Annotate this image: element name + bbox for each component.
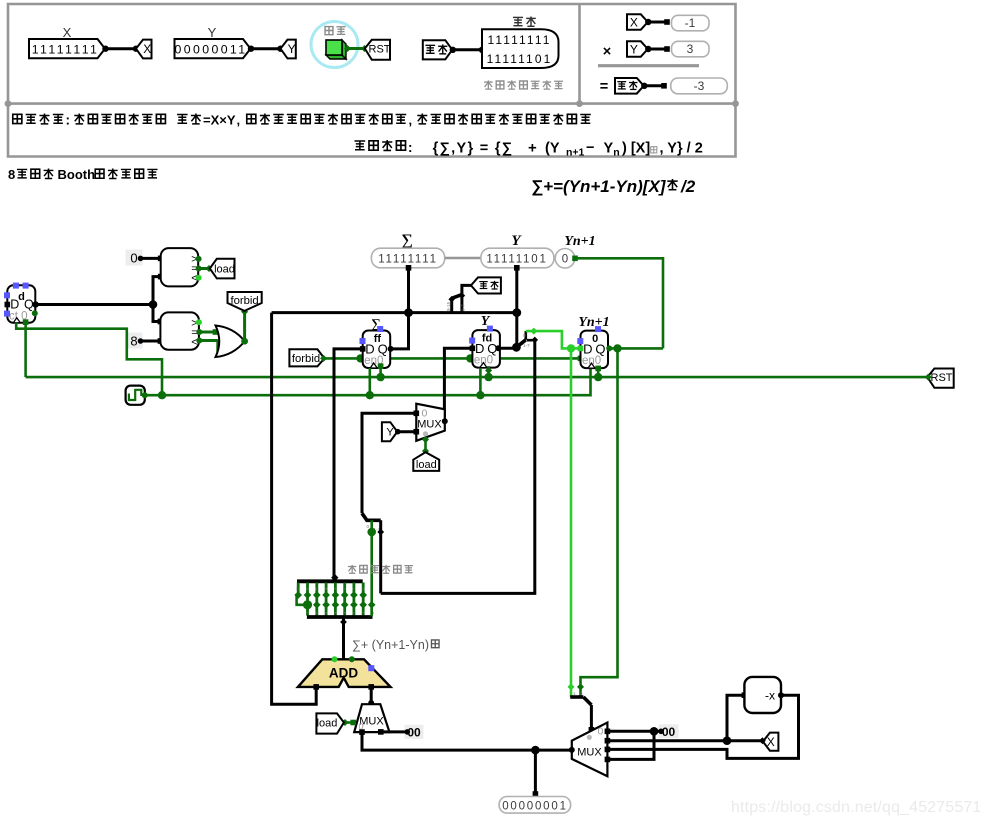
svg-text:11111111: 11111111	[488, 33, 552, 47]
text 功能说明 line	[13, 114, 64, 125]
wire mux U8 input from product mux	[362, 732, 571, 750]
wire counter Q to comparators	[35, 303, 153, 306]
wire to comparator U3 input	[153, 305, 160, 322]
svg-text:1-7: 1-7	[523, 343, 530, 348]
wire Yn+1 dark vertical (to output splitter)	[581, 348, 618, 697]
svg-text:Y: Y	[386, 427, 394, 439]
svg-text:−: −	[586, 140, 594, 156]
tunnel 乘积 (product, top)	[423, 40, 453, 59]
wire button to tunnel RST	[346, 47, 365, 50]
svg-text:ADD: ADD	[329, 666, 358, 681]
wire en net (forbid)	[324, 357, 580, 360]
svg-text:Yn+1: Yn+1	[578, 315, 609, 330]
wire ∑ probe to bus	[407, 268, 410, 313]
tunnel load (from comparator)	[210, 259, 235, 279]
wire U2 = output to load tunnel	[198, 267, 210, 270]
svg-text:11111111: 11111111	[378, 254, 438, 266]
svg-text:X: X	[143, 42, 151, 56]
shifter sign-extension elbow	[297, 595, 308, 605]
svg-text:0: 0	[367, 524, 370, 529]
svg-text:n: n	[613, 147, 619, 159]
svg-text:=: =	[600, 79, 608, 95]
svg-text:Y: Y	[604, 141, 614, 157]
wire tunnel to output pin 乘积	[452, 48, 482, 51]
label 复位 (reset)	[325, 27, 346, 35]
wire counter en pin down to RST net	[24, 323, 27, 377]
selection handles on counter	[13, 283, 19, 289]
svg-text:×: ×	[603, 44, 611, 60]
tunnel X	[136, 40, 152, 59]
tunnel 乘积 (to output pin)	[471, 277, 501, 293]
wire bits 1-7 down to y593 bus	[379, 520, 382, 593]
svg-text:-3: -3	[694, 79, 705, 93]
svg-text:load: load	[214, 264, 235, 276]
wire Yn+1 Q to probe net	[609, 347, 663, 350]
svg-text:/2: /2	[680, 177, 696, 196]
wire RST net (long horizontal)	[26, 376, 928, 379]
wire grey link between probes	[445, 257, 481, 260]
register fd (Y)	[472, 330, 500, 368]
tunnel RST	[365, 40, 390, 60]
probe ∑ (11111111)	[371, 248, 444, 268]
svg-text:forbid: forbid	[230, 295, 258, 307]
button 复位 (green push button)	[326, 55, 346, 59]
constant 8	[126, 333, 143, 349]
splitter shifter bottom bar	[307, 615, 373, 619]
wire constant 8 to comparator U3	[140, 340, 160, 343]
register ff (∑)	[363, 331, 391, 369]
register Yn+1	[581, 331, 609, 369]
tunnel 乘积 (formula panel)	[615, 78, 644, 94]
label 算术右移一位	[348, 565, 413, 574]
mux U8 (addend select)	[354, 704, 389, 732]
svg-text:MUX: MUX	[577, 747, 602, 759]
wire constant 0 to comparator U2	[140, 257, 161, 260]
svg-text:0: 0	[523, 333, 526, 338]
bus ∑ horizontal (top)	[272, 311, 517, 314]
node counter-Q junction	[149, 300, 158, 309]
wire mux U6 input-0 from splitter	[362, 413, 416, 513]
wire shifter output to ADD	[342, 619, 345, 660]
comparator U2 (count vs 0)	[161, 248, 199, 286]
svg-text:-1: -1	[685, 16, 696, 30]
node en at fd	[466, 354, 474, 362]
svg-text:0: 0	[598, 726, 604, 738]
label 乘积 above output pin	[513, 16, 536, 26]
label 输入输出引脚区	[484, 80, 563, 89]
svg-text:8-15: 8-15	[446, 301, 451, 311]
node bus junction at Y	[512, 308, 521, 317]
splitter 乘积 combiner	[462, 285, 471, 312]
wire Yn+1 reset stub	[597, 369, 600, 378]
probe 00000001	[499, 797, 570, 814]
mux U9 (product source select)	[572, 723, 608, 777]
constant 00 (mux U9)	[659, 724, 679, 738]
wire splitter to mux U9 select	[590, 705, 593, 730]
node bus junction at ∑	[404, 308, 413, 317]
svg-text:(Y: (Y	[545, 141, 560, 157]
constant 0	[126, 250, 143, 266]
svg-text:load: load	[416, 459, 437, 471]
wire pin Y to tunnel Y	[251, 47, 281, 50]
svg-text:8: 8	[8, 167, 15, 182]
node clock junction at counter branch	[158, 391, 166, 399]
wire mux U9 input0 from 00	[607, 730, 661, 733]
svg-text:{∑,Y} = {∑: {∑,Y} = {∑	[433, 141, 514, 157]
svg-text:Yn+1: Yn+1	[564, 234, 595, 249]
svg-text:0: 0	[422, 408, 428, 420]
svg-text:+: +	[528, 140, 537, 157]
tunnel X (product path)	[763, 733, 779, 751]
wire pin X to tunnel X	[105, 47, 136, 50]
counter U1 (d)	[7, 285, 35, 323]
svg-text:3: 3	[687, 42, 694, 56]
node en at ff	[356, 354, 364, 362]
svg-text:MUX: MUX	[417, 419, 442, 431]
svg-text:00000001: 00000001	[502, 801, 568, 813]
wire big ∑ bus loop (left side)	[272, 313, 317, 705]
svg-text:∑+=(Yn+1-Yn)[X]: ∑+=(Yn+1-Yn)[X]	[531, 177, 667, 196]
splitter select bits (Yn+1,Yn)	[570, 695, 583, 699]
wire Y[1-7] bus down and around	[381, 339, 535, 593]
svg-text:D: D	[10, 298, 19, 312]
svg-text:00: 00	[662, 725, 676, 739]
svg-text:X: X	[63, 25, 72, 40]
wire Yn+1 D input (bright)	[571, 347, 581, 350]
probe 3	[672, 41, 710, 57]
mux U6 (Y register feed)	[416, 404, 445, 441]
tunnel Y (mux input 1)	[382, 422, 397, 441]
svg-text:=X×Y: =X×Y	[203, 113, 236, 128]
wire X to probe -1	[648, 21, 667, 24]
node Yn+1 Q junction	[613, 344, 621, 352]
svg-text:<: <	[191, 336, 197, 348]
wire ADD to mux U8	[370, 687, 373, 704]
node X junction	[723, 736, 732, 745]
tunnel RST (right end of reset net)	[927, 369, 953, 388]
clock source U5	[126, 386, 145, 405]
wire fd reset stub	[487, 366, 490, 377]
node probe tap junction	[531, 746, 540, 755]
probe Yn+1 bit (0)	[555, 248, 575, 268]
probe -3	[671, 78, 728, 94]
svg-text:,: ,	[237, 113, 241, 128]
OR gate U4	[216, 326, 245, 358]
probe -1	[672, 15, 710, 30]
svg-text:Y: Y	[208, 25, 217, 40]
wire Y to probe 3	[648, 48, 667, 51]
splitter Y bits	[516, 340, 525, 348]
svg-text:0: 0	[562, 254, 568, 266]
svg-text:) [X]: ) [X]	[622, 141, 650, 157]
svg-text::: :	[66, 113, 71, 128]
svg-text:-x: -x	[765, 689, 775, 703]
svg-text:RST: RST	[369, 44, 391, 56]
probe Y (11111101)	[481, 248, 554, 268]
shifter fan wires (8 bits, shifted)	[297, 583, 300, 596]
svg-text:∑: ∑	[401, 232, 412, 249]
wire lowbit-0 green down to shifter	[370, 520, 373, 616]
svg-text:forbid: forbid	[292, 353, 320, 365]
svg-text:https://blog.csdn.net/qq_45275: https://blog.csdn.net/qq_45275571	[731, 799, 981, 816]
wire mux U8 input from constant 00	[381, 730, 408, 733]
wire ff D input from shifter	[334, 349, 363, 581]
tunnel Y	[281, 40, 296, 59]
svg-text:X: X	[767, 735, 775, 749]
tunnel Y (formula panel)	[627, 41, 648, 56]
wire shifter extra bit-0 feed end	[370, 605, 373, 617]
svg-text:X: X	[630, 15, 638, 29]
svg-text:0: 0	[130, 251, 137, 266]
wire probe tap down	[534, 750, 537, 794]
wire fd Q to splitter	[498, 347, 517, 350]
svg-text:, Y} / 2: , Y} / 2	[660, 141, 703, 157]
wire fd clock stub	[479, 368, 482, 395]
wire tunnel Y to mux U6	[397, 430, 416, 433]
node Yn+1 D junction	[567, 344, 575, 352]
wire clock net (horizontal to Yn+1 register)	[145, 368, 591, 395]
svg-text:11111101: 11111101	[486, 254, 547, 266]
tunnel forbid (to en net)	[289, 349, 324, 366]
wire U3 < output to OR gate	[199, 341, 223, 351]
wire OR output to forbid tunnel	[243, 311, 246, 341]
wire mux U6 select to load	[424, 438, 427, 453]
wire Y probe down to fd Q net	[515, 268, 518, 349]
wire probe Yn+1 to register Q net	[576, 258, 663, 348]
tunnel load (up-pointing, mux U6 select)	[413, 452, 439, 471]
wire fd D input from MUX U6	[444, 348, 472, 421]
comparator U3 (count vs 8)	[160, 312, 199, 349]
wire 乘积 to probe -3	[644, 84, 664, 87]
wire ff Q to bus	[390, 313, 408, 349]
wire mux U9 input1 from X	[607, 739, 763, 742]
svg-text:RST: RST	[931, 372, 953, 384]
svg-text:n+1: n+1	[566, 147, 585, 159]
wire U3 = output to OR gate	[199, 331, 216, 334]
adder U7 (ADD)	[298, 659, 391, 687]
wire to comparator U2 input	[153, 277, 161, 305]
constant 00 (mux U8)	[405, 725, 424, 739]
wire X to negator input	[727, 695, 744, 741]
tunnel X (formula panel)	[627, 14, 648, 29]
svg-text:load: load	[317, 718, 338, 730]
tunnel forbid (down-pointing)	[228, 292, 262, 311]
node 00 junction	[650, 727, 659, 736]
svg-text:00000011: 00000011	[175, 43, 248, 57]
svg-text:11111101: 11111101	[487, 52, 553, 66]
svg-text:Booth: Booth	[58, 167, 96, 182]
wire negator output to mux U9 input2	[607, 695, 798, 758]
wire counter ct output to clock net	[16, 323, 162, 395]
svg-text:Y: Y	[288, 42, 296, 56]
tunnel load (mux U8 select)	[316, 713, 344, 733]
svg-text:0-7: 0-7	[461, 304, 466, 311]
output pin 乘积 (16-bit, two rows)	[482, 29, 559, 68]
negator U10 (-x)	[744, 677, 781, 713]
wire Yn bright vertical (to output splitter)	[570, 348, 573, 697]
splitter lowbit (mux U6 feed)	[362, 513, 381, 520]
splitter shifter top bar	[297, 579, 363, 583]
fraction line (formula panel)	[598, 64, 699, 67]
svg-text:11111111: 11111111	[32, 43, 100, 57]
wire ff reset stub	[379, 367, 382, 378]
wire ff clock stub	[368, 368, 371, 395]
wire load to mux U8 select	[344, 721, 355, 724]
svg-text::: :	[408, 140, 413, 155]
svg-text:Y: Y	[630, 42, 638, 56]
svg-text:8: 8	[130, 334, 137, 349]
frame: pin area / formula area / description boxes	[8, 4, 736, 157]
wire mux U9 input3 from 00	[607, 731, 654, 759]
reset button highlight ellipse	[311, 22, 358, 68]
svg-text:∑+ (Yn+1-Yn): ∑+ (Yn+1-Yn)	[352, 638, 429, 652]
text 核心算法 line	[355, 140, 406, 151]
svg-text:,: ,	[409, 113, 413, 128]
